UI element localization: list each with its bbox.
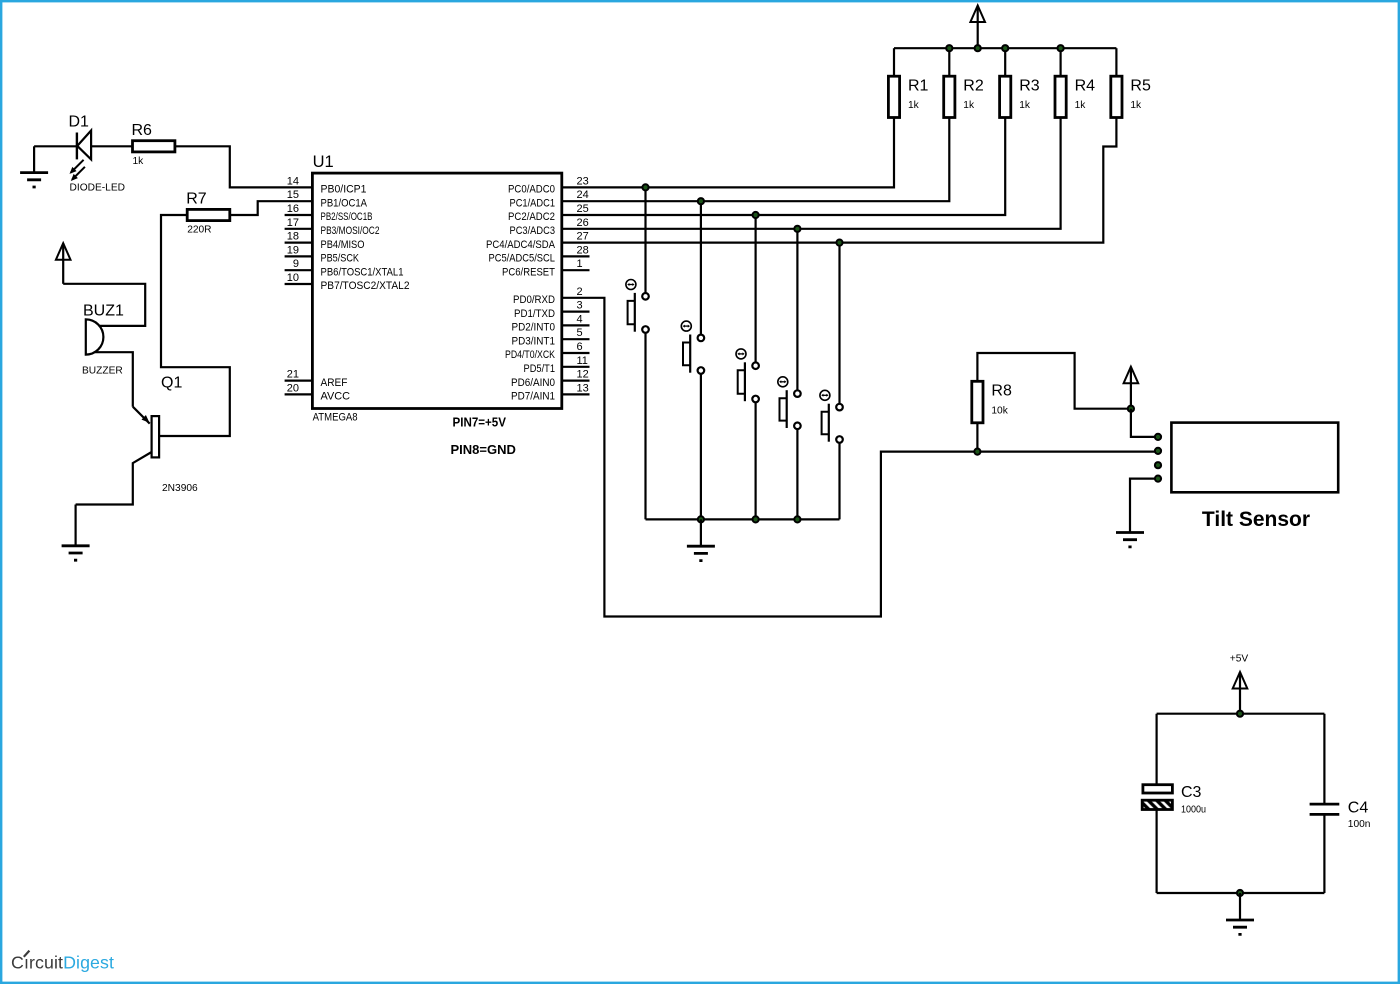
wire cap ground rail [1157,892,1325,894]
svg-text:6: 6 [577,341,583,353]
svg-text:R8: R8 [991,383,1012,400]
svg-text:R1: R1 [908,78,929,95]
wire R5 to U1 pin 27 [562,118,1117,243]
wire R2 to U1 pin 24 [562,118,950,202]
svg-text:16: 16 [287,203,299,215]
svg-text:C4: C4 [1348,800,1369,817]
svg-text:PB6/TOSC1/XTAL1: PB6/TOSC1/XTAL1 [321,266,404,278]
svg-text:CırcuitDigest: CırcuitDigest [11,953,114,973]
svg-text:PB4/MISO: PB4/MISO [321,239,365,251]
svg-text:27: 27 [577,231,589,243]
svg-text:220R: 220R [187,225,211,236]
svg-text:PC3/ADC3: PC3/ADC3 [510,225,556,237]
svg-text:1k: 1k [1019,100,1031,111]
ground (D1) [20,146,48,187]
svg-text:20: 20 [287,382,299,394]
U1 left pin 19 PB5/SCK [285,244,360,264]
resistor R1 [888,76,928,117]
wire R7 to U1 pin 15 [230,201,313,215]
power symbol (buzzer supply) [56,243,71,284]
push-button SW5 [820,243,843,520]
svg-text:4: 4 [577,313,583,325]
svg-text:PC4/ADC4/SDA: PC4/ADC4/SDA [486,239,556,251]
U1 left pin 20 AVCC [285,382,350,402]
junction bus-SW3 [753,516,759,522]
wire cap top rail [1157,713,1325,715]
U1 right pin 2 PD0/RXD [513,286,583,306]
U1 right pin 26 PC3/ADC3 [510,217,589,237]
power symbol (top bus) [970,6,985,49]
svg-text:PB5/SCK: PB5/SCK [321,253,360,265]
svg-text:18: 18 [287,231,299,243]
push-button SW1 [626,187,649,519]
buzzer BUZ1 [82,303,124,377]
svg-text:PB3/MOSI/OC2: PB3/MOSI/OC2 [321,225,380,237]
CircuitDigest logo [11,951,114,973]
svg-text:23: 23 [577,175,589,187]
power symbol (tilt sensor supply) [1124,367,1139,409]
U1 right pin 27 PC4/ADC4/SDA [486,231,589,251]
U1 right pin 6 PD4/T0/XCK [505,341,590,361]
resistor R5 [1111,76,1151,117]
resistor R2 [944,76,984,117]
svg-text:PD3/INT1: PD3/INT1 [512,335,556,347]
junction R8 / pin2 net [974,449,980,455]
U1 right pin 12 PD6/AIN0 [511,369,590,389]
resistor R8 [972,381,1012,423]
U1 right pin 1 PC6/RESET [502,258,590,278]
svg-text:R2: R2 [963,78,984,95]
svg-text:10: 10 [287,272,299,284]
svg-text:1: 1 [577,258,583,270]
U1 left pin 10 PB7/TOSC2/XTAL2 [285,272,410,292]
svg-text:17: 17 [287,217,299,229]
svg-text:19: 19 [287,244,299,256]
svg-text:PD5/T1: PD5/T1 [524,363,556,375]
U1 left pin 18 PB4/MISO [285,231,365,251]
junction bus-SW2 [698,516,704,522]
wire R4 to U1 pin 26 [562,118,1061,229]
ground (button bus) [687,519,715,560]
svg-text:DIODE-LED: DIODE-LED [70,183,125,194]
power symbol (+5V caps) [1233,672,1248,714]
transistor Q1 (2N3906) [76,375,198,505]
svg-text:26: 26 [577,217,589,229]
junction bus-R2 [946,45,952,51]
svg-text:PB2/SS/OC1B: PB2/SS/OC1B [321,211,373,223]
push-button SW4 [778,229,801,520]
svg-text:AVCC: AVCC [321,391,351,403]
ground (tilt sensor) [1116,533,1144,547]
svg-text:25: 25 [577,203,589,215]
svg-text:9: 9 [293,258,299,270]
svg-text:1k: 1k [1130,100,1142,111]
svg-text:24: 24 [577,189,589,201]
svg-text:R6: R6 [132,122,153,139]
push-button SW2 [681,201,704,519]
U1 right pin 5 PD3/INT1 [512,327,590,347]
svg-text:1k: 1k [963,100,975,111]
U1 left pin 16 PB2/SS/OC1B [285,203,373,223]
wire bus to R5 [1115,48,1117,76]
svg-text:11: 11 [577,355,588,367]
ground (caps) [1226,893,1254,934]
junction pin row / SW4 [794,226,800,232]
wire bus to R1 [893,48,895,76]
U1 right pin 28 PC5/ADC5/SCL [489,244,590,264]
svg-text:BUZ1: BUZ1 [83,303,124,320]
U1 right pin 3 PD1/TXD [514,300,590,320]
tilt sensor pin 4 [1155,476,1161,482]
U1 right pin 23 PC0/ADC0 [508,175,589,195]
wire BUZ1 to Q1 emitter [95,352,133,407]
svg-text:2: 2 [577,286,583,298]
junction pin row / SW1 [642,184,648,190]
svg-text:PD6/AIN0: PD6/AIN0 [511,377,555,389]
wire R7 to Q1 base [159,215,230,436]
svg-text:Q1: Q1 [161,375,182,392]
wire R1 to U1 pin 23 [562,118,894,188]
svg-text:PC0/ADC0: PC0/ADC0 [508,184,555,196]
wire C4 to ground rail [1323,814,1325,893]
ground (Q1 collector) [62,505,90,561]
svg-text:AREF: AREF [321,377,348,389]
svg-text:PC2/ADC2: PC2/ADC2 [508,211,555,223]
junction bus-SW4 [794,516,800,522]
U1 right pin 4 PD2/INT0 [512,313,590,333]
svg-text:PB7/TOSC2/XTAL2: PB7/TOSC2/XTAL2 [321,280,410,292]
svg-text:PD1/TXD: PD1/TXD [514,308,555,320]
wire +5V node to tilt pin 1 [1131,409,1155,437]
wire C3 to ground rail [1155,810,1157,894]
U1 right pin 25 PC2/ADC2 [508,203,589,223]
U1 left pin 9 PB6/TOSC1/XTAL1 [285,258,404,278]
svg-text:PD7/AIN1: PD7/AIN1 [511,391,555,403]
svg-text:Tilt Sensor: Tilt Sensor [1202,508,1310,531]
wire D1 to R6 [91,145,132,147]
wire bus to R4 [1059,48,1061,76]
wire tilt pin 4 to ground [1130,479,1155,533]
junction +5V node [1128,406,1134,412]
resistor R4 [1055,76,1095,117]
U1 right pin 13 PD7/AIN1 [511,382,590,402]
junction ground rail [1237,890,1243,896]
svg-text:5: 5 [577,327,583,339]
wire bus to R3 [1004,48,1006,76]
IC U1 ATMEGA8 body [312,153,561,457]
svg-text:1k: 1k [1075,100,1087,111]
svg-text:ATMEGA8: ATMEGA8 [313,412,358,424]
svg-text:2N3906: 2N3906 [162,483,198,494]
wire button ground bus [646,518,840,520]
wire bus to R2 [948,48,950,76]
push-button SW3 [736,215,759,519]
wire R3 to U1 pin 25 [562,118,1005,216]
svg-text:PIN8=GND: PIN8=GND [451,442,516,457]
svg-text:R5: R5 [1130,78,1151,95]
wire ground to D1 cathode [34,145,77,147]
svg-text:PD0/RXD: PD0/RXD [513,294,555,306]
U1 right pin 11 PD5/T1 [524,355,590,375]
wire +5V bus (top) [894,47,1116,49]
svg-text:PC1/ADC1: PC1/ADC1 [510,197,556,209]
junction +5V rail [1237,711,1243,717]
wire power to BUZ1 [63,284,145,326]
svg-text:1k: 1k [908,100,920,111]
junction pin row / SW3 [753,212,759,218]
junction bus-power [975,45,981,51]
diode D1 (DIODE-LED) [69,114,125,194]
wire rail to C4 [1323,714,1325,804]
svg-text:1000u: 1000u [1181,805,1206,816]
svg-text:14: 14 [287,175,299,187]
tilt sensor pin 1 [1155,434,1161,440]
svg-text:21: 21 [287,369,299,381]
wire R8 bottom [976,423,978,452]
svg-text:100n: 100n [1348,819,1371,830]
svg-text:C3: C3 [1181,784,1202,801]
svg-text:12: 12 [577,369,589,381]
junction bus-R4 [1058,45,1064,51]
wire R6 to U1 pin 14 [175,146,313,187]
U1 left pin 14 PB0/ICP1 [287,175,367,195]
svg-text:PIN7=+5V: PIN7=+5V [453,415,507,430]
junction bus-R3 [1002,45,1008,51]
wire R8 top to +5V node [977,353,1131,409]
junction pin row / SW2 [698,198,704,204]
resistor R6 [132,122,175,167]
svg-text:PB0/ICP1: PB0/ICP1 [321,184,367,196]
svg-text:BUZZER: BUZZER [82,366,123,377]
svg-text:28: 28 [577,244,589,256]
capacitor C4 100n [1310,800,1371,831]
svg-text:10k: 10k [991,405,1008,416]
svg-text:+5V: +5V [1230,654,1249,665]
svg-text:13: 13 [577,382,589,394]
svg-text:U1: U1 [313,153,334,171]
svg-text:PB1/OC1A: PB1/OC1A [321,197,368,209]
wire rail to C3 [1155,714,1157,785]
svg-text:R3: R3 [1019,78,1040,95]
svg-text:D1: D1 [69,114,90,131]
svg-text:R4: R4 [1075,78,1096,95]
U1 left pin 17 PB3/MOSI/OC2 [285,217,380,237]
svg-text:3: 3 [577,300,583,312]
resistor R3 [1000,76,1040,117]
svg-text:PC5/ADC5/SCL: PC5/ADC5/SCL [489,253,556,265]
svg-text:PD2/INT0: PD2/INT0 [512,322,556,334]
U1 left pin 15 PB1/OC1A [287,189,368,209]
U1 left pin 21 AREF [285,369,348,389]
tilt sensor pin 2 [1155,448,1161,454]
capacitor C3 1000u (electrolytic) [1142,784,1206,816]
tilt sensor pin 3 [1155,462,1161,468]
junction pin row / SW5 [836,240,842,246]
tilt sensor module [1171,423,1338,531]
svg-text:15: 15 [287,189,299,201]
U1 right pin 24 PC1/ADC1 [510,189,589,209]
svg-text:R7: R7 [186,191,207,208]
svg-text:PD4/T0/XCK: PD4/T0/XCK [505,349,556,361]
svg-text:PC6/RESET: PC6/RESET [502,266,555,278]
resistor R7 [186,191,230,236]
svg-text:1k: 1k [133,156,145,167]
wire U1 pin 2 to tilt net [562,298,1155,617]
